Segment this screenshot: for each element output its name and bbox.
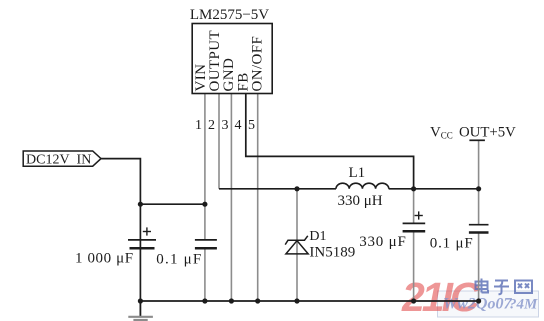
svg-text:Ww2Qo07: Ww2Qo07 [443,296,512,313]
svg-text:V: V [430,125,441,141]
svg-text:LM2575−5V: LM2575−5V [190,7,269,23]
svg-text:ON/OFF: ON/OFF [249,36,265,92]
svg-text:CC: CC [441,130,453,140]
svg-text:3: 3 [222,118,229,133]
svg-text:1 000 μF: 1 000 μF [75,251,134,267]
svg-text:330 μF: 330 μF [359,234,406,250]
svg-text:D1: D1 [309,229,326,244]
svg-text:?4M: ?4M [509,297,538,313]
svg-text:330 μH: 330 μH [337,193,382,209]
svg-text:DC12V IN: DC12V IN [26,153,91,168]
svg-text:0.1 μF: 0.1 μF [156,252,202,268]
svg-text:L1: L1 [348,165,365,181]
svg-text:IN5189: IN5189 [309,245,355,261]
svg-text:0.1 μF: 0.1 μF [430,235,474,251]
svg-text:GND: GND [221,58,237,92]
svg-text:4: 4 [235,118,242,133]
svg-text:OUT+5V: OUT+5V [459,125,516,141]
svg-text:1: 1 [195,118,202,133]
svg-text:5: 5 [248,118,255,133]
svg-text:2: 2 [208,118,215,133]
